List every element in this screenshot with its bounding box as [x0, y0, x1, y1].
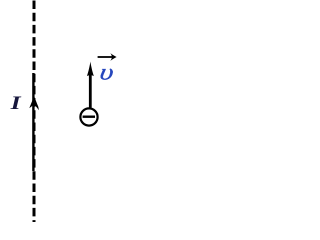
- svg-text:I: I: [9, 92, 22, 113]
- svg-text:υ: υ: [98, 59, 116, 85]
